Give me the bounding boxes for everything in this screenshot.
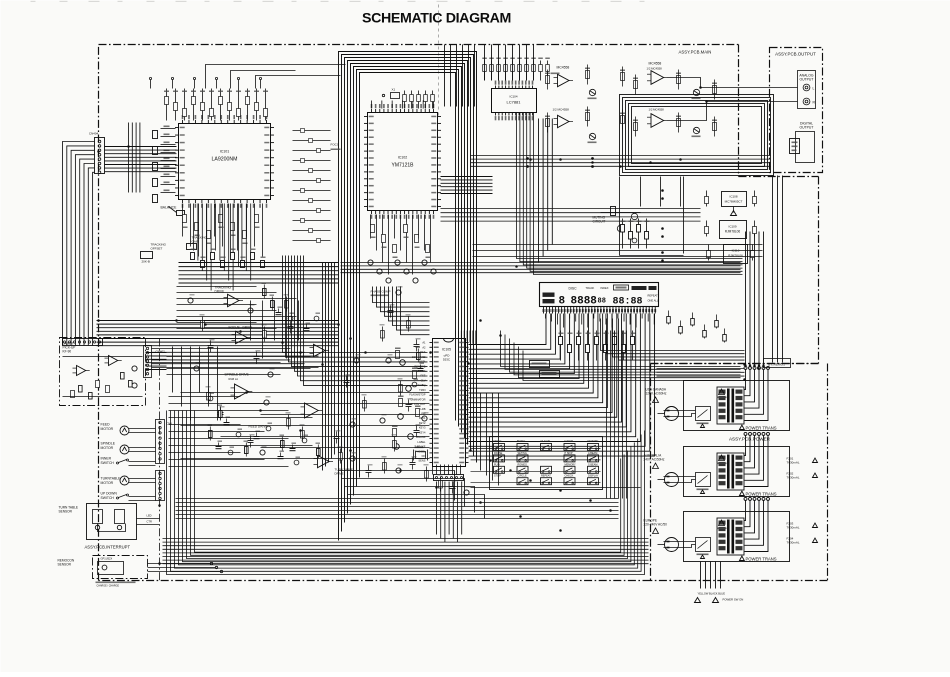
crystal X2: [414, 447, 428, 461]
IC IC108 MC78M05CT: [722, 192, 747, 216]
label MC4558 C: [647, 62, 663, 71]
svg-text:CHECK: CHECK: [565, 475, 574, 478]
svg-text:SCHEMATIC DIAGRAM: SCHEMATIC DIAGRAM: [362, 11, 511, 27]
wires servo interconnect: [169, 287, 313, 467]
svg-text:CN4: CN4: [167, 422, 173, 426]
svg-text:DRIVE: DRIVE: [215, 290, 225, 294]
wires loops to IC102 top pins: [372, 101, 434, 109]
wire analog L to jack: [668, 78, 798, 88]
transistor Q201: [588, 89, 597, 99]
transformer T1 power block (USA/CANADA): [664, 366, 790, 430]
svg-text:CN404: CN404: [89, 132, 99, 136]
label DIGITAL OUTPUT: [800, 122, 814, 130]
RC parts analog section: [545, 65, 717, 137]
svg-text:CIRCLE: CIRCLE: [518, 475, 528, 478]
IC IC109 RJM78L06: [720, 221, 747, 239]
svg-text:REPEAT: REPEAT: [541, 475, 551, 478]
power PCB frame: [651, 364, 828, 581]
wire bus above display: [341, 263, 741, 273]
scan marks top edge: [31, 1, 645, 2]
wire bundle CN404 to left column: [63, 142, 95, 346]
IC IC104 LC7881 DAC: [492, 81, 537, 121]
wire verticals output to power: [773, 176, 783, 363]
wire laser to CN402: [146, 349, 319, 370]
svg-text:SENSOR: SENSOR: [58, 563, 72, 567]
component cluster left of IC105: [392, 348, 421, 450]
label 1/2MC4558 D: [649, 108, 665, 112]
svg-text:OFFSET: OFFSET: [151, 247, 163, 251]
label ANALOG OUTPUT: [799, 74, 813, 82]
op-amp U9 balance: [310, 344, 330, 356]
wires IC105 left pins to servo: [181, 393, 430, 459]
svg-text:FLASH/STOP: FLASH/STOP: [409, 393, 425, 397]
wire band mid-left: [97, 321, 339, 346]
caps row y255 below IC101: [191, 249, 266, 268]
IC IC110 RJM78L06: [724, 245, 748, 264]
wire fan IC105 to LCD: [469, 314, 655, 457]
svg-text:ASSY.PCB.OUTPUT: ASSY.PCB.OUTPUT: [775, 52, 816, 57]
connector CN404: [89, 132, 105, 174]
component cluster below IC101: [183, 204, 263, 267]
svg-text:ROTATE: ROTATE: [588, 439, 599, 443]
svg-text:OUTPUT: OUTPUT: [800, 78, 814, 82]
warning triangle W1: [653, 397, 659, 403]
warning triangle W3: [653, 528, 659, 534]
center fold line: [438, 5, 440, 117]
plug P2: [658, 473, 679, 487]
resistor cluster above IC101: [164, 89, 268, 121]
svg-text:LED: LED: [147, 514, 152, 518]
wire bundle DAC down to right: [517, 113, 743, 275]
svg-text:POWER SW ON: POWER SW ON: [723, 598, 744, 602]
svg-text:UP DOWN: UP DOWN: [101, 492, 118, 496]
svg-text:553C: 553C: [443, 358, 451, 362]
wire verticals IC105-buttons corridor: [481, 393, 499, 486]
svg-text:POWER TRANS: POWER TRANS: [746, 492, 777, 497]
power switch wires below T3: [695, 562, 744, 603]
focus labels: [331, 143, 341, 151]
wire band bottom: [163, 539, 649, 564]
wires loop rect to muting: [620, 177, 684, 262]
wire band lower mid: [176, 499, 619, 519]
component cluster left of IC101: [153, 126, 176, 203]
op-amp U4A MC4558: [647, 71, 668, 85]
label INNER SWITCH: [101, 457, 115, 466]
wire verticals inner corridor: [323, 263, 335, 471]
IC IC105 LC6554 system control: [430, 339, 469, 467]
components right of display: [667, 311, 727, 343]
svg-text:RGB LA: RGB LA: [229, 377, 239, 381]
motor M1 feed: [120, 426, 156, 435]
svg-text:CN402: CN402: [156, 350, 166, 354]
label YM7121B: [392, 163, 415, 169]
remocon sensor unit: [58, 556, 148, 579]
voltage note boxes: [530, 361, 560, 378]
svg-text:8: 8: [559, 296, 566, 308]
svg-text:BT..REMO1: BT..REMO1: [768, 363, 785, 367]
label USA CANADA 120V: [646, 388, 667, 396]
label IC102: [398, 156, 408, 160]
svg-text:MC4558: MC4558: [649, 62, 662, 66]
svg-text:LABEL: LABEL: [417, 440, 426, 444]
svg-text:DISC1: DISC1: [494, 439, 503, 443]
svg-text:1/2 MC4558: 1/2 MC4558: [649, 108, 665, 112]
label below remocon: [96, 582, 136, 588]
svg-text:FEED: FEED: [101, 423, 111, 427]
connector digital output: [790, 132, 815, 163]
fuse label F204: [787, 537, 818, 545]
svg-text:YELLOW BLACK BLUE: YELLOW BLACK BLUE: [698, 592, 726, 596]
svg-text:POWER TRANS: POWER TRANS: [746, 557, 777, 562]
svg-text:LAMINATOR: LAMINATOR: [411, 397, 426, 401]
svg-text:KEY3: KEY3: [419, 426, 426, 430]
svg-text:POWER TRANS: POWER TRANS: [746, 426, 777, 431]
svg-text:T630mAL: T630mAL: [787, 476, 800, 480]
warning triangle W2: [653, 463, 659, 469]
LCD comb drops: [546, 314, 655, 328]
svg-text:88: 88: [598, 298, 606, 306]
plug P1: [658, 407, 679, 421]
fuse label F201: [787, 457, 818, 465]
wire drops below IC101: [194, 204, 251, 291]
LCD display module: [540, 283, 659, 308]
pin labels IC105 left: [409, 341, 426, 463]
label MC4558 A: [551, 66, 570, 75]
svg-text:IC109: IC109: [728, 225, 736, 229]
svg-text:MEMORY: MEMORY: [565, 463, 577, 466]
op-amp U3A MC4558: [554, 74, 574, 86]
node row above IC101: [149, 77, 261, 88]
fuse label F203: [787, 522, 818, 530]
button matrix bottom wire: [471, 487, 641, 489]
caps around regulators: [705, 191, 757, 261]
label 1/2MC4558 B: [553, 108, 570, 112]
svg-text:SPINDLE: SPINDLE: [101, 442, 116, 446]
phase comp labels: [371, 290, 391, 297]
op-amp U5 tracking drive: [224, 294, 244, 306]
label TURN TABLE DRIVE: [335, 468, 353, 476]
svg-text:STOP: STOP: [494, 475, 501, 478]
svg-text:120V AC/60Hz: 120V AC/60Hz: [646, 392, 667, 396]
wire remocon out: [148, 562, 223, 572]
wire bus IC102 right area: [441, 209, 701, 222]
svg-text:SET/NG: SET/NG: [518, 452, 527, 455]
switch S1 inner: [117, 459, 156, 466]
connector CN402: [144, 346, 166, 378]
svg-text:MOTOR: MOTOR: [101, 446, 114, 450]
label UP DOWN SWITCH: [101, 492, 118, 501]
fuse label F202: [787, 472, 818, 480]
wire bundle IC102 to DAC: [441, 177, 493, 194]
wire verticals DAC outputs: [539, 119, 553, 263]
switch S2 up-down: [117, 494, 156, 501]
svg-text:A2: A2: [422, 345, 426, 349]
svg-text:KF-90: KF-90: [63, 350, 72, 354]
connector below IC105: [433, 465, 464, 481]
svg-text:INDEX: INDEX: [601, 286, 609, 290]
svg-text:TRACK: TRACK: [586, 286, 595, 290]
wire bus below opamps: [471, 156, 771, 167]
svg-text:DRIVE: DRIVE: [335, 472, 344, 476]
transistor Q204: [692, 127, 701, 137]
output PCB frame ASSY.PCB.OUTPUT border: [770, 48, 823, 173]
battery box BT-REMO1: [764, 359, 791, 368]
svg-text:OUTPUT: OUTPUT: [800, 126, 814, 130]
svg-text:LC7881: LC7881: [506, 100, 521, 105]
svg-text:REPEAT: REPEAT: [648, 294, 659, 298]
junction dots scatter: [97, 86, 760, 565]
label AUSTRALIA 240V: [644, 454, 665, 462]
crystal and caps above IC102: [382, 88, 434, 109]
svg-text:SENSOR: SENSOR: [59, 510, 73, 514]
component cluster below IC102: [371, 215, 431, 275]
IC IC101 LA9200NM servo amp: [175, 115, 274, 208]
wire verticals left column: [129, 123, 140, 193]
svg-text:1/2 MC4558: 1/2 MC4558: [553, 108, 570, 112]
transistor cluster below IC102: [368, 260, 436, 283]
svg-text:IC108: IC108: [729, 195, 737, 199]
tracking offset box: [141, 243, 167, 264]
component cluster above display: [473, 219, 763, 257]
connector CN405: [156, 471, 165, 501]
op-amp U6 focus drive: [232, 331, 252, 343]
svg-text:CHARGE / CHARGE: CHARGE / CHARGE: [97, 585, 120, 588]
muting circuit: [593, 207, 641, 232]
LCD pin comb: [543, 307, 657, 314]
svg-text:P SKIP: P SKIP: [565, 452, 573, 455]
svg-text:MC4558: MC4558: [557, 66, 570, 70]
wire loop right legs to IC105 top: [456, 331, 476, 345]
IC IC102 YM7121B signal processor: [364, 104, 441, 219]
wire loop bundle around IC102: [339, 52, 477, 541]
plug P3: [658, 538, 679, 552]
svg-text:DO: DO: [422, 454, 426, 458]
tracking gain label: [187, 236, 208, 250]
main PCB frame ASSY.PCB.MAIN border: [99, 45, 819, 581]
label FOCUS DRIVE: [229, 326, 253, 330]
svg-text:TURNTABLE: TURNTABLE: [101, 477, 122, 481]
RC scatter drive area 2: [208, 283, 425, 465]
svg-text:SENS: SENS: [418, 459, 425, 463]
wire corners display to power: [601, 319, 745, 361]
title text: [362, 11, 511, 27]
svg-text:LA9200NM: LA9200NM: [212, 157, 238, 163]
svg-text:FOCUS: FOCUS: [229, 326, 240, 330]
svg-text:T630mAL: T630mAL: [787, 541, 800, 545]
svg-text:S BEAM: S BEAM: [588, 463, 597, 466]
balance pot: [161, 206, 185, 216]
op-amp U7 spindle drive: [231, 384, 253, 399]
interrupt PCB divider line: [159, 339, 161, 581]
wires servo verticals: [167, 301, 311, 421]
label FEED MOTOR: [101, 423, 114, 432]
label ASSY.PCB.OUTPUT: [775, 52, 816, 57]
svg-text:INNER: INNER: [101, 457, 112, 461]
wire verticals frame to IC102 top: [445, 45, 475, 107]
junction dots output loops: [526, 157, 594, 168]
svg-text:X1: X1: [392, 88, 396, 92]
svg-text:A SKIP: A SKIP: [564, 439, 573, 443]
svg-text:SWITCH: SWITCH: [101, 461, 115, 465]
svg-text:DISC: DISC: [569, 287, 578, 291]
wire bundle power supply rails: [744, 232, 764, 368]
svg-text:CTR: CTR: [147, 520, 152, 524]
op-amp U4B MC4558: [647, 114, 668, 128]
label EUROPE 220-240V: [644, 519, 668, 527]
svg-text:ONE ALL: ONE ALL: [648, 299, 659, 303]
svg-text:88:88: 88:88: [613, 297, 643, 308]
label ASSY.PCB.INTERRUPT: [85, 545, 131, 550]
cap row above LC7881: [482, 58, 550, 81]
svg-text:A BEAM: A BEAM: [588, 452, 597, 455]
connector analog output R jack: [803, 98, 815, 105]
svg-text:FOCS: FOCS: [331, 143, 339, 147]
label LA9200NM: [212, 157, 238, 163]
op-amp U10 turntable drive: [314, 455, 334, 467]
svg-text:TMIN: TMIN: [419, 388, 425, 392]
svg-text:8888: 8888: [571, 296, 598, 308]
label TURNTABLE MOTOR: [101, 477, 122, 486]
laser pickup extra parts: [63, 357, 143, 400]
wire bundle CN404 to IC101: [105, 147, 177, 172]
wire staircase IC102 to IC105: [373, 287, 430, 335]
keyboard button matrix: [471, 437, 603, 490]
svg-text:A1: A1: [422, 341, 426, 345]
svg-text:240V AC/50Hz: 240V AC/50Hz: [644, 458, 665, 462]
label FEED DRIVE: [249, 425, 268, 429]
wire staircase center to IC105: [283, 256, 428, 386]
wire verticals right of buttons: [607, 331, 627, 499]
svg-text:L: L: [813, 87, 815, 91]
svg-text:ASSY.PCB.INTERRUPT: ASSY.PCB.INTERRUPT: [85, 545, 131, 550]
svg-text:20K-B: 20K-B: [142, 260, 150, 264]
op-amp U8 feed drive: [301, 403, 323, 418]
svg-text:1/2 MC4558: 1/2 MC4558: [647, 67, 663, 71]
wire drops below IC105: [437, 482, 462, 543]
op-amp U3B MC4558: [554, 115, 574, 127]
label TRACKING DRIVE: [215, 286, 232, 294]
svg-text:BALANCE: BALANCE: [161, 206, 178, 210]
svg-text:RJM78L06: RJM78L06: [725, 230, 741, 234]
svg-text:GP1U52X: GP1U52X: [101, 557, 113, 561]
svg-text:5DISC: 5DISC: [517, 439, 525, 443]
turn table sensor unit: [59, 504, 137, 540]
connector analog output L jack: [803, 84, 814, 91]
label IC105: [442, 348, 451, 362]
transformer T2 power block (AUSTRALIA): [664, 432, 790, 496]
wire staircase to power area: [501, 331, 741, 381]
label IC101: [220, 150, 230, 154]
svg-text:T630mAL: T630mAL: [787, 526, 800, 530]
svg-text:LRB: LRB: [420, 407, 425, 411]
svg-text:ROMEO: ROMEO: [518, 463, 528, 466]
wire band below IC101: [179, 263, 339, 284]
svg-text:KEY4: KEY4: [419, 430, 426, 434]
svg-text:MC78M05CT: MC78M05CT: [725, 200, 743, 204]
svg-text:IC101: IC101: [220, 150, 230, 154]
motor M3 turntable: [120, 476, 156, 485]
wire power top rails: [657, 369, 745, 377]
RC component scatter servo area: [188, 286, 471, 495]
svg-text:MOTOR: MOTOR: [101, 481, 114, 485]
label LC7881: [506, 95, 521, 105]
svg-text:ASSY.PCB.MAIN: ASSY.PCB.MAIN: [679, 50, 712, 55]
svg-text:IC102: IC102: [398, 156, 408, 160]
label SPINDLE DRIVE: [225, 373, 249, 382]
label ASSY.PCB.POWER: [729, 437, 771, 442]
motor M2 spindle: [120, 445, 156, 454]
laser pickup unit KF-90: [60, 338, 146, 406]
wire loop rectangle bundle output section: [620, 95, 774, 176]
label ASSY.PCB.MAIN: [679, 50, 712, 55]
svg-text:MOTOR: MOTOR: [101, 427, 114, 431]
wire nested U bundle bottom: [167, 411, 645, 575]
wire bundle top frame to DAC: [485, 45, 534, 81]
transistor Q203: [692, 89, 701, 99]
analog output jack frame: [798, 71, 816, 109]
svg-text:BLANK: BLANK: [417, 435, 426, 439]
svg-text:220-240V AC/50: 220-240V AC/50: [644, 523, 668, 527]
svg-text:SWITCH: SWITCH: [101, 496, 115, 500]
svg-text:CLEAR: CLEAR: [541, 439, 550, 443]
wire analog R to jack: [668, 102, 798, 121]
svg-text:PLAY: PLAY: [494, 463, 501, 466]
wire IC101 top feed: [206, 65, 346, 89]
transformer T3 power block (EUROPE): [664, 497, 790, 561]
svg-text:T630mAL: T630mAL: [787, 461, 800, 465]
svg-text:DISPLAY: DISPLAY: [588, 475, 599, 478]
transistor Q202: [588, 133, 597, 143]
wire sensor out: [137, 514, 160, 525]
connector CN403: [156, 420, 173, 464]
label SPINDLE MOTOR: [101, 442, 116, 451]
resistor row right mid: [559, 331, 636, 361]
wire corridor fanout: [339, 471, 485, 519]
components between IC101 and IC102: [293, 129, 331, 243]
svg-text:IC104: IC104: [509, 95, 517, 99]
svg-text:IC105: IC105: [442, 348, 451, 352]
svg-text:YM7121B: YM7121B: [392, 163, 415, 169]
